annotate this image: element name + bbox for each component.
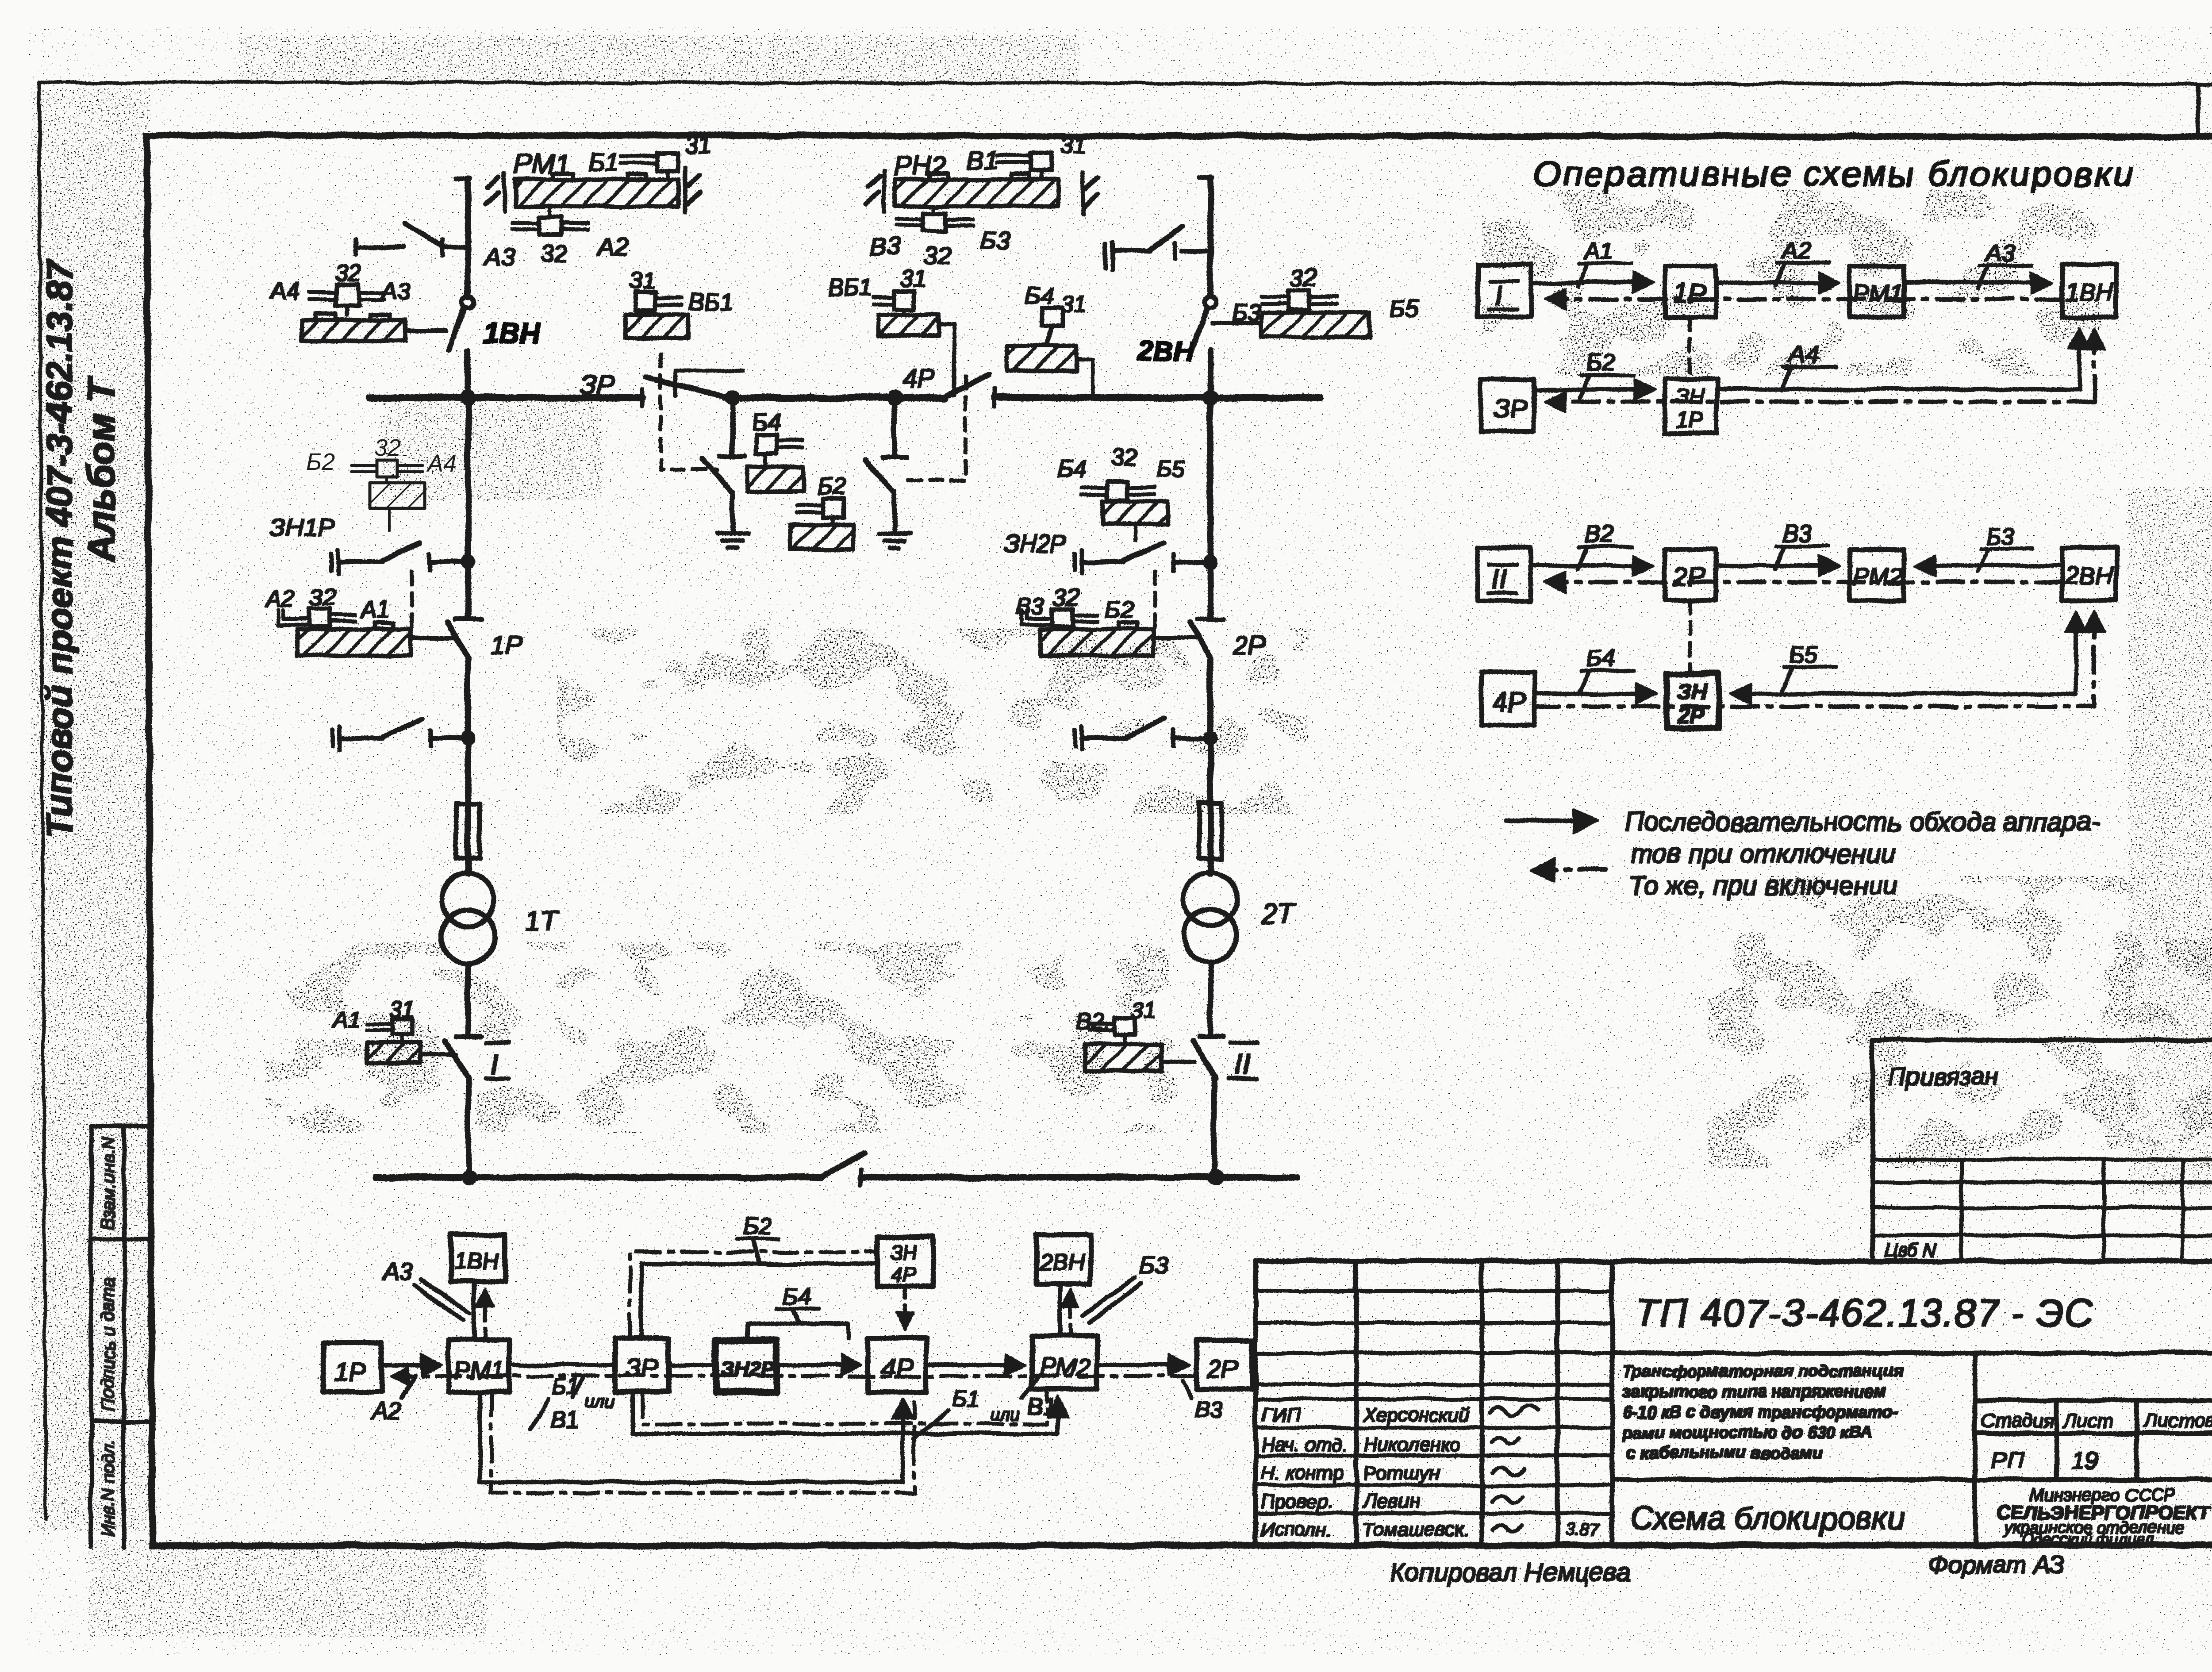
chain wire 3R-ZN2R: [668, 1364, 716, 1367]
svg-text:РМ1: РМ1: [514, 149, 570, 180]
svg-text:А2: А2: [1781, 237, 1811, 264]
lock V3-B2 leads right: [1073, 615, 1098, 621]
wire feeder I below 1R: [466, 659, 471, 874]
lock V3-32-B3 leads: [896, 219, 972, 226]
wire bar to switch I: [420, 1053, 456, 1057]
noise left margin: [31, 88, 150, 1531]
wire bar to 1VN: [405, 329, 446, 332]
junction dot lower-left: [461, 731, 475, 745]
ground switch B4 at bus: wire: [731, 398, 735, 456]
lock A4-32-A3 leads: [310, 293, 384, 315]
earth switch ZN2R wire right: [1173, 560, 1210, 564]
svg-text:В3: В3: [1782, 520, 1811, 547]
lock A3-32-A2 square: [539, 217, 562, 234]
earth switch lower-right blade: [1125, 719, 1164, 737]
lock A1 leads: [367, 1024, 402, 1043]
svg-text:Нач. отд.: Нач. отд.: [1261, 1434, 1348, 1456]
svg-text:4Р: 4Р: [1493, 688, 1525, 717]
wire feeder I below transformer: [466, 963, 470, 1035]
svg-text:ЗН: ЗН: [890, 1241, 918, 1264]
svg-text:РМ1: РМ1: [454, 1356, 505, 1384]
svg-text:2ВН: 2ВН: [1137, 335, 1194, 367]
ground switch B4 blade: [703, 459, 732, 492]
interlock bar VB1 right hatched: [878, 315, 938, 335]
wire feeder II below transformer: [1208, 962, 1213, 1035]
earth switch ZN1R blade: [381, 542, 420, 561]
noise band lower middle: [265, 942, 1194, 1133]
arrows row1 group2 solid: [1531, 565, 1650, 568]
svg-text:В3: В3: [1194, 1397, 1223, 1423]
disconnector A3 top-left: blade: [405, 223, 444, 246]
privyazan box outline: [1873, 1040, 2212, 1261]
svg-text:1ВН: 1ВН: [454, 1249, 499, 1274]
junction dot lower-right: [1204, 731, 1217, 745]
lock A4-32-A3 square: [336, 285, 358, 306]
interlock bar B2 mid hatched: [790, 525, 853, 550]
link 2VN to RM2: [1059, 1284, 1062, 1336]
svg-text:4Р: 4Р: [902, 364, 935, 393]
svg-text:1ВН: 1ВН: [483, 317, 541, 349]
disconnector 3R tick: [641, 389, 644, 406]
wire feeder II below 2R: [1208, 659, 1213, 874]
svg-text:31: 31: [1060, 132, 1087, 158]
junction dot ZN1R: [461, 555, 475, 569]
svg-text:Подпись и дата: Подпись и дата: [99, 1277, 118, 1411]
svg-text:ВБ1: ВБ1: [688, 288, 733, 315]
title block right horizontals: [1612, 1353, 2212, 1480]
svg-text:Ротшун: Ротшун: [1363, 1462, 1440, 1484]
bottom diagram box 4R: [868, 1338, 926, 1392]
lock B4 upper right stem: [1047, 327, 1052, 346]
svg-text:Схема блокировки: Схема блокировки: [1630, 1501, 1905, 1536]
ground switch B2 blade: [864, 459, 894, 492]
lock V3-B2 square: [1053, 609, 1073, 627]
wire feeder I mid: [466, 350, 471, 619]
interlock bar B3-B5 hatched: [1262, 312, 1370, 337]
svg-text:Копировал Немцева: Копировал Немцева: [1390, 1558, 1631, 1587]
svg-text:31: 31: [1061, 291, 1087, 318]
bottom diagram box 2R: [1196, 1340, 1252, 1389]
interlock bar II hatched: [1085, 1044, 1161, 1071]
earth switch lower-right bars: [1075, 726, 1082, 750]
link bar VB1 right to 4R: [938, 325, 954, 395]
svg-text:Томашевск.: Томашевск.: [1362, 1519, 1469, 1541]
junction dot ZN2R: [1204, 555, 1217, 569]
ground symbol right: [879, 534, 910, 548]
noise right margin strip: [2128, 487, 2212, 1195]
box ZN-1R: [1665, 379, 1717, 433]
dashed link 2R to ZN2R: [1689, 600, 1691, 674]
chain dashed return: [394, 1375, 1196, 1377]
lock V3-B2 elbow leads: [1022, 611, 1053, 625]
svg-text:1Т: 1Т: [526, 906, 559, 936]
svg-text:32: 32: [1053, 584, 1079, 611]
legend dash-dot arrow: [1535, 868, 1606, 872]
earth switch ZN2R blade: [1124, 542, 1164, 561]
svg-text:Б2: Б2: [1586, 350, 1615, 376]
top loop 3R to ZN4R solid: [641, 1264, 877, 1338]
wire feeder I upper: [466, 179, 471, 297]
svg-text:Трансформаторная подстанция: Трансформаторная подстанция: [1623, 1362, 1904, 1381]
interlock bar VB1 left hatched: [626, 315, 688, 338]
lock VB1 right square: [894, 291, 914, 310]
noise around lock left: [380, 398, 602, 500]
wire bar to 2R: [1154, 637, 1198, 640]
svg-text:РН2: РН2: [894, 151, 947, 181]
interlock bar RN2 hatched: [895, 180, 1058, 206]
privyazan box rows: [1873, 1160, 2212, 1236]
loop RM1 to 4R dashed: [491, 1392, 914, 1493]
RM1 right wall tick: [685, 167, 700, 211]
earth switch ZN1R wire right: [429, 560, 468, 564]
wire bar B3-B5 to 2VN: [1212, 322, 1262, 325]
ground switch B4 contact bar: [720, 455, 745, 458]
fuse 2: [1199, 803, 1222, 858]
interlock bar B4 mid hatched: [748, 467, 803, 491]
interlock bar 1VN hatched: [302, 320, 405, 341]
svg-text:Б3: Б3: [1140, 1252, 1168, 1279]
dashed linkage 1R: [410, 572, 413, 627]
earth switch lower-left tick: [430, 730, 433, 746]
disconnector 3R blade: [647, 377, 726, 397]
sheet number box: [2198, 85, 2212, 136]
svg-text:А3: А3: [1984, 240, 2015, 266]
svg-text:В1: В1: [967, 146, 998, 175]
lock A2-A1 square: [310, 609, 330, 627]
earth switch ZN1R bars: [331, 550, 338, 573]
lock B2-32-A4 leads: [351, 465, 423, 483]
busbar 1: [369, 395, 1321, 401]
svg-text:Б5: Б5: [1156, 456, 1185, 482]
noise mid sheet faint clouds: [619, 832, 1681, 1159]
svg-text:6-10 кВ с двумя трансформато-: 6-10 кВ с двумя трансформато-: [1623, 1403, 1898, 1422]
svg-text:Цвб N: Цвб N: [1884, 1240, 1936, 1261]
svg-text:Альбом Т: Альбом Т: [80, 377, 123, 563]
svg-text:В1: В1: [1027, 1394, 1056, 1419]
svg-text:Б1: Б1: [588, 148, 619, 177]
box 1R: [1665, 266, 1716, 317]
fuse 1: [457, 803, 480, 858]
svg-text:4Р: 4Р: [891, 1263, 916, 1286]
lock VB1 left square: [635, 292, 656, 311]
noise band middle left: [557, 628, 1310, 814]
chain wire 4R-RM2: [926, 1364, 1022, 1367]
wire feeder II bottom: [1212, 1078, 1216, 1177]
earth switch lower-left blade: [383, 719, 422, 737]
svg-text:ЗН: ЗН: [1675, 384, 1705, 408]
earth switch ZN1R wire left: [338, 560, 381, 564]
feeder I top tick: [457, 177, 470, 181]
svg-text:Формат АЗ: Формат АЗ: [1929, 1551, 2065, 1579]
link ZN4R to 4R dashed: [904, 1286, 906, 1327]
svg-text:В3: В3: [870, 232, 900, 260]
main frame: [147, 135, 2212, 1546]
box RM2: [1850, 550, 1904, 600]
svg-text:3.87: 3.87: [1565, 1520, 1601, 1539]
svg-text:Взам.инв.N: Взам.инв.N: [99, 1137, 118, 1230]
svg-text:II: II: [1492, 563, 1508, 595]
lock RM1 elbow leads: [621, 156, 657, 163]
svg-text:Херсонский: Херсонский: [1363, 1404, 1470, 1426]
svg-text:А4: А4: [1788, 342, 1818, 368]
box 4R: [1481, 672, 1534, 725]
bottom diagram box ZN-4R: [877, 1237, 933, 1286]
disconnector I contact bar: [457, 1034, 480, 1038]
disconnector 4R blade: [945, 374, 989, 397]
interlock bar 2R hatched: [1041, 629, 1154, 656]
svg-text:2Т: 2Т: [1261, 899, 1295, 929]
dashed linkage 2R: [1153, 572, 1156, 627]
svg-text:или: или: [585, 1391, 614, 1411]
svg-text:32: 32: [541, 239, 568, 267]
wire bar to 1R: [411, 637, 456, 640]
title block right verticals: [1975, 1353, 2137, 1545]
svg-text:32: 32: [1290, 265, 1317, 291]
transformer 2T circles: [1184, 873, 1237, 926]
svg-text:Б5: Б5: [1389, 296, 1418, 322]
svg-text:А1: А1: [360, 596, 390, 623]
legend solid arrow: [1506, 819, 1593, 823]
link bar B4 right to bus: [1076, 359, 1093, 395]
svg-text:1ВН: 1ВН: [2065, 278, 2113, 306]
dashed link 1R to ZN1R: [1689, 317, 1691, 379]
svg-text:ЗР: ЗР: [1494, 394, 1528, 423]
noise cluster top strip: [239, 35, 1079, 84]
svg-text:1Р: 1Р: [1673, 279, 1705, 308]
ground switch B4 wire to earth: [731, 492, 734, 533]
box 2VN: [2062, 548, 2116, 600]
svg-text:А2: А2: [264, 586, 295, 612]
noise bottom left under frame: [88, 1540, 487, 1637]
svg-text:2Р: 2Р: [1206, 1355, 1238, 1384]
arrows row2 group1 solid: [1534, 388, 1651, 391]
disconnector II blade: [1193, 1041, 1216, 1078]
svg-text:31: 31: [685, 132, 711, 158]
label II roman: [1229, 1042, 1257, 1079]
lock A3-32-A2 leads: [512, 223, 588, 229]
lock RM1 lower stem: [548, 206, 551, 217]
ground switch B2 at bus: wire: [893, 398, 897, 456]
svg-text:Б4: Б4: [782, 1283, 811, 1310]
bottom diagram box 1R: [323, 1342, 381, 1392]
dashed linkage 4R: [909, 376, 965, 480]
chain wire RM2-2R: [1097, 1364, 1186, 1367]
junction dots busbar 2: [462, 1170, 476, 1184]
interlock bar I hatched: [367, 1043, 420, 1063]
svg-text:В3: В3: [1016, 593, 1045, 619]
svg-text:31: 31: [900, 265, 926, 292]
chain wire RM1-3R: [509, 1364, 615, 1367]
lock B4-B5 stem to earth knife: [1134, 524, 1137, 541]
lock B2 mid leads: [797, 505, 833, 525]
lock VB1 right leads: [874, 297, 904, 315]
interlock bar ZN1R hatched: [370, 483, 425, 508]
interlock bar 1VN tabs: [316, 314, 390, 320]
svg-text:А3: А3: [382, 1258, 412, 1285]
box 2R: [1665, 550, 1716, 600]
lock B4-B5 leads: [1081, 488, 1155, 495]
dashed linkage 3R: [661, 354, 717, 470]
arrows row2 group2 dashed: [1534, 615, 2094, 707]
svg-text:Листов: Листов: [2143, 1410, 2212, 1432]
lock B3-32-B5 square: [1288, 290, 1310, 310]
svg-text:Н. контр: Н. контр: [1261, 1462, 1343, 1484]
privyazan box columns: [1961, 1160, 2183, 1261]
svg-text:А2: А2: [371, 1398, 402, 1425]
lock B3-32-B5 leads: [1262, 296, 1337, 312]
svg-text:ЗР: ЗР: [626, 1354, 659, 1383]
ground switch B2 wire to earth: [893, 492, 896, 533]
hinge circle 1VN: [462, 296, 474, 308]
svg-text:Б3: Б3: [980, 226, 1010, 254]
svg-text:ЗН2Р: ЗН2Р: [1003, 530, 1067, 557]
noise cluster title cloud: [1482, 190, 2101, 376]
wire bar to switch II: [1161, 1061, 1194, 1064]
arrows row1 group1 dashed return: [1548, 298, 2062, 301]
svg-text:II: II: [1234, 1048, 1251, 1080]
svg-text:Б2: Б2: [306, 449, 335, 475]
bottom diagram box 1VN: [451, 1235, 505, 1282]
arrows row1 group1 solid: [1531, 281, 1650, 284]
svg-text:А1: А1: [1583, 238, 1614, 265]
svg-text:Инв.N подл.: Инв.N подл.: [99, 1439, 118, 1537]
svg-text:Б1: Б1: [552, 1374, 580, 1400]
svg-text:Одесский филиал: Одесский филиал: [2021, 1530, 2154, 1549]
svg-text:с кабельными вводами: с кабельными вводами: [1626, 1444, 1823, 1462]
arrows row1 group2 dashed return: [1548, 581, 2062, 584]
lock B4-B5 square: [1108, 481, 1128, 501]
svg-text:А2: А2: [597, 233, 629, 261]
staff table horizontals upper: [1256, 1291, 1612, 1399]
staff table verticals: [1256, 1261, 1612, 1545]
svg-text:19: 19: [2071, 1448, 2098, 1474]
B4 bracket link: [747, 1324, 848, 1340]
junction dots busbar 1: [461, 391, 475, 405]
svg-text:ВБ1: ВБ1: [828, 274, 873, 301]
svg-text:То же, при включении: То же, при включении: [1628, 871, 1897, 900]
earth switch lower-left bars: [333, 726, 340, 750]
disconnector 2R blade: [1190, 622, 1211, 659]
svg-text:Привязан: Привязан: [1888, 1062, 1998, 1090]
noise cluster right lower: [1708, 876, 2212, 1168]
box 1VN: [2062, 265, 2116, 317]
blade 1VN: [449, 308, 465, 350]
interlock bar RN2 tabs: [929, 173, 1029, 180]
lock A2-A1 leads right: [330, 615, 355, 621]
lock V2 leads: [1090, 1024, 1125, 1044]
loop RM1 to 4R solid: [480, 1392, 902, 1482]
svg-text:1Р: 1Р: [490, 630, 522, 660]
arrows row2 group1 dashed: [1548, 400, 2094, 404]
svg-text:Левин: Левин: [1362, 1491, 1419, 1512]
wire feeder II upper: [1208, 177, 1213, 295]
svg-text:32: 32: [334, 260, 361, 287]
RN2 left wall tick: [866, 171, 884, 211]
svg-text:А4: А4: [269, 278, 300, 304]
chain wire ZN2R-4R: [776, 1364, 858, 1367]
lock RM1 stem: [666, 171, 669, 179]
bottom diagram box RM2: [1032, 1336, 1097, 1389]
earth switch lower-left wire: [340, 736, 383, 740]
svg-text:1Р: 1Р: [1676, 407, 1703, 432]
svg-text:32: 32: [1111, 444, 1138, 471]
svg-text:Стадия: Стадия: [1981, 1410, 2054, 1432]
svg-text:Б4: Б4: [1586, 645, 1615, 672]
lock V3-32-B3 square: [923, 213, 946, 231]
bus tie tick: [859, 1169, 862, 1185]
interlock bar RM1 hatched: [515, 180, 678, 206]
bus tie blade: [821, 1153, 864, 1177]
svg-text:2ВН: 2ВН: [1039, 1249, 1085, 1275]
svg-text:4Р: 4Р: [881, 1354, 913, 1383]
svg-text:Типовой проект 407-3-462.13.: Типовой проект 407-3-462.13.87: [39, 259, 80, 837]
loop 3R to RM2 dashed: [642, 1392, 1047, 1424]
lock B2-32-A4 square: [377, 460, 397, 477]
svg-text:Лист: Лист: [2062, 1410, 2113, 1432]
interlock bar 1R tab: [375, 623, 394, 629]
svg-text:закрытого типа напряжением: закрытого типа напряжением: [1623, 1383, 1886, 1401]
svg-text:1Р: 1Р: [334, 1358, 366, 1387]
svg-text:В1: В1: [550, 1407, 579, 1433]
svg-text:А4: А4: [426, 450, 457, 477]
earth switch lower-right wire: [1082, 736, 1125, 740]
top loop dashed: [630, 1252, 877, 1338]
noise title block: [1256, 1265, 2212, 1542]
lock RN2 elbow leads: [997, 156, 1031, 163]
lock A2-A1 elbow leads: [279, 611, 310, 625]
box II: [1478, 548, 1531, 601]
disconnector I blade: [445, 1041, 468, 1078]
svg-text:Б2: Б2: [742, 1213, 771, 1240]
svg-text:или: или: [990, 1405, 1020, 1424]
chain wire 1R-RM1: [381, 1364, 438, 1367]
earth switch lower-right tick: [1172, 730, 1175, 746]
label I roman: [486, 1042, 509, 1079]
svg-text:2Р: 2Р: [1673, 562, 1705, 592]
svg-text:I: I: [1494, 280, 1502, 311]
lock B4 mid leads: [766, 441, 803, 467]
svg-text:РП: РП: [1991, 1447, 2024, 1473]
svg-text:Николенко: Николенко: [1363, 1434, 1460, 1456]
link 1VN to RM1: [473, 1282, 476, 1340]
svg-text:ЗН1Р: ЗН1Р: [271, 514, 334, 542]
left stamp column grid: [91, 1126, 147, 1547]
disconnector II contact bar: [1200, 1034, 1223, 1038]
staff table horizontals rows: [1256, 1428, 1612, 1513]
bottom diagram box 2VN: [1037, 1235, 1091, 1284]
outer thin border left: [39, 82, 46, 1518]
box I: [1478, 265, 1531, 317]
svg-text:Б2: Б2: [1105, 596, 1134, 623]
svg-text:I: I: [490, 1048, 498, 1080]
svg-text:Оперативные схемы блокировки: Оперативные схемы блокировки: [1533, 154, 2135, 193]
svg-text:Б3: Б3: [1985, 523, 2014, 550]
svg-text:А3: А3: [380, 278, 411, 304]
lock B2 mid square: [824, 499, 844, 518]
disconnector top right: wire: [1112, 249, 1210, 253]
svg-text:ТП 407-3-462.13.87 - ЭС: ТП 407-3-462.13.87 - ЭС: [1635, 1291, 2094, 1335]
disconnector top right: earth bars: [1105, 243, 1112, 269]
link bar B2 to 3R: [675, 371, 743, 395]
svg-text:32: 32: [310, 584, 336, 611]
stem bar ZN1R down: [388, 508, 391, 531]
svg-text:2Р: 2Р: [1233, 630, 1266, 660]
disconnector 4R tick: [993, 389, 996, 406]
interlock bar 1R hatched: [297, 629, 411, 656]
arrows row2 group2 solid: [1534, 692, 1653, 696]
staff signatures squiggles: [1490, 1404, 1539, 1532]
disconnector 1R contact bar: [456, 618, 480, 621]
